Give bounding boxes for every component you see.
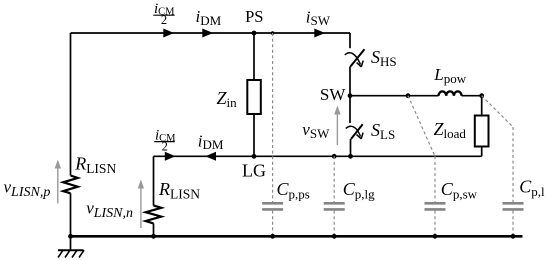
node dot small (C_p,ps tap) [271, 31, 275, 35]
node dot C_p,sw tap [406, 93, 411, 98]
capacitor C_p,ps dashed leads (gray) [272, 33, 274, 236]
impedance Z_in box [247, 80, 260, 114]
node dot bus C_p,l [511, 234, 516, 239]
wire SW horizontal to inductor [350, 95, 438, 97]
node dot bus R_LISN right [151, 234, 156, 239]
capacitor C_p,l dashed leads (gray) [482, 96, 513, 236]
wire LG horizontal [154, 155, 482, 157]
ground symbol [58, 236, 84, 257]
wire between S_HS and SW node [349, 67, 351, 96]
node dot bus left [68, 234, 73, 239]
node PS dot [252, 31, 257, 36]
capacitor C_p,sw dashed leads (gray) [408, 96, 435, 236]
current arrow i_CM/2 (top) [163, 29, 174, 38]
capacitor C_p,l plates [503, 203, 524, 209]
switch S_HS blade [350, 49, 365, 67]
arrow v_LISN,p (gray) [55, 160, 61, 204]
switch S_HS actuate arrow [345, 53, 361, 65]
node dot Z_load top [479, 93, 484, 98]
arrow v_SW (gray) [334, 106, 340, 146]
wire inductor to Z_load node [462, 95, 482, 97]
wire R_LISN (right) vertical lower [153, 223, 155, 236]
wire left vertical lower [70, 193, 72, 236]
resistor R_LISN (left) zigzag [63, 176, 78, 194]
wire SW node down to S_LS [349, 96, 351, 123]
impedance Z_load box [475, 116, 489, 147]
arrow v_LISN,n (gray) [138, 180, 144, 229]
wire S_LS bottom to LG wire [350, 139, 352, 156]
resistor R_LISN (right) zigzag [146, 205, 162, 223]
node dot C_p,lg tap [332, 154, 337, 159]
label i_CM/2 fraction (LG) [154, 127, 176, 153]
node dot bus C_p,sw [433, 234, 438, 239]
wire top horizontal from left corner to S_HS [71, 32, 351, 34]
inductor L_pow [439, 91, 462, 96]
node SW dot [348, 93, 353, 98]
capacitor C_p,ps plates [262, 203, 283, 209]
current arrow i_DM (top) [202, 29, 213, 38]
switch S_LS blade [351, 124, 363, 139]
switch S_LS actuate arrow [346, 126, 361, 136]
node dot S_LS bottom [348, 154, 353, 159]
capacitor C_p,lg dashed leads (gray) [333, 156, 335, 236]
ground bus bottom [71, 235, 523, 238]
capacitor C_p,sw plates [425, 203, 446, 209]
svg-text:PS: PS [245, 7, 263, 26]
current arrow i_SW [314, 29, 325, 38]
node dot Z_in bottom [252, 154, 257, 159]
current arrow i_DM (LG wire, left) [205, 152, 216, 161]
svg-text:LG: LG [242, 161, 266, 181]
current arrow i_CM/2 (LG wire, right) [165, 152, 176, 161]
wire left vertical upper [70, 33, 72, 176]
impedance Z_in leads [253, 33, 255, 156]
svg-text:2: 2 [161, 13, 167, 27]
svg-text:2: 2 [162, 139, 168, 153]
wire right vertical above S_HS [349, 33, 351, 48]
impedance Z_load leads [481, 96, 483, 157]
label i_CM/2 fraction (top) [153, 1, 175, 27]
svg-text:SW: SW [320, 85, 346, 104]
node dot bus C_p,ps [270, 234, 275, 239]
capacitor C_p,lg plates [324, 203, 345, 209]
wire R_LISN (right) vertical upper [153, 156, 155, 205]
node dot bus C_p,lg [332, 234, 337, 239]
